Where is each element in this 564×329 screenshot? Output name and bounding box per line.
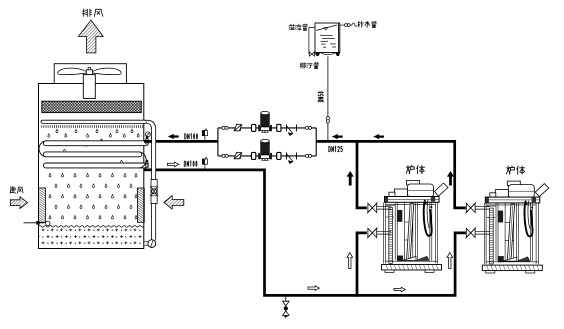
furnace U2 (炉体 right) (482, 181, 549, 273)
arrow up furnace1 cold riser (347, 253, 353, 269)
gauge on supply line (202, 157, 207, 168)
coil outlet flange (146, 160, 148, 168)
label 炉体 (furnace2) (507, 166, 515, 174)
label 补水管 (358, 21, 364, 27)
label 炉体 (furnace1) (406, 165, 414, 173)
coil U-bend left (39, 141, 46, 157)
furnace1 cold inlet pipe (377, 232, 391, 234)
right louver (hatched) (137, 188, 144, 222)
label 进风 (10, 187, 16, 194)
tank water level (316, 25, 337, 30)
furnace U1 (炉体 left) (382, 181, 449, 273)
arrow supply near tower (167, 162, 178, 167)
valve on spray riser (150, 180, 159, 204)
pump branch 1 (P1) (222, 111, 312, 136)
arrow up furnace1 hot riser (347, 171, 354, 186)
fan motor (83, 75, 95, 99)
air inlet arrow left (10, 197, 27, 209)
pump branch 2 (P2) (222, 139, 312, 164)
furnace1 hot inlet pipe (377, 207, 391, 209)
pump loop frame (218, 128, 316, 156)
tank bottom (316, 53, 340, 57)
spray riser pipe (tower right side) (147, 120, 156, 240)
furnace2 cold inlet pipe (475, 232, 489, 234)
coil tube 2 (43, 152, 141, 157)
spray nozzles row (42, 125, 143, 128)
tank water shading (320, 35, 336, 47)
droplets below coil (49, 174, 137, 219)
furnace1 hot valve (367, 203, 377, 214)
label DN50 (vertical) (318, 92, 323, 102)
furnace1 hot riser (357, 140, 367, 208)
basin water line (39, 226, 145, 228)
overflow pipe (309, 28, 317, 54)
overflow/drain valve (309, 52, 314, 56)
arrow up furnace2 cold riser (447, 253, 453, 269)
label DN125 (329, 146, 331, 151)
fan blades (58, 68, 121, 75)
drift eliminator (crosshatch band) (42, 101, 142, 112)
drain valve assembly (283, 297, 290, 319)
furnace2 hot inlet pipe (475, 207, 489, 209)
tank outlet pipe DN50 (327, 56, 329, 140)
return header DN125 to furnace risers (316, 141, 466, 208)
air inlet arrow right (164, 196, 184, 210)
arrow on header mid (373, 134, 384, 139)
fan hub (86, 68, 92, 75)
coil inlet flange (146, 137, 148, 145)
supply pipe DN100 + headers (144, 170, 466, 296)
float valve (24, 221, 51, 226)
cooling tower body (39, 84, 144, 249)
furnace2 cold valve (466, 228, 476, 239)
arrow bottom header 2 (394, 287, 405, 292)
gauge on return line (202, 129, 207, 140)
label 排污管 (300, 63, 306, 68)
furnace2 hot valve (466, 203, 476, 214)
arrow on header after tank tee (332, 134, 343, 139)
label 排风 (82, 9, 91, 16)
label DN100 (return) (185, 134, 186, 139)
left louver (hatched) (39, 188, 46, 222)
spray header (41, 120, 147, 123)
spray pump (bottom of riser) (144, 240, 156, 248)
tank body (315, 23, 340, 53)
arrow bottom header 1 (308, 286, 319, 291)
small caret marks (63, 139, 123, 162)
return pipe DN100 (furnaces->tower) (144, 140, 218, 143)
arrow return near tower (168, 134, 179, 139)
furnace1 cold valve (367, 228, 377, 239)
coil tube 1 (43, 141, 148, 146)
label DN100 (supply) (184, 161, 185, 166)
fan housing (54, 64, 126, 84)
coil tube 3 (43, 163, 148, 168)
makeup pipe + valve + hook (340, 23, 357, 27)
furnace1 cold riser (357, 233, 367, 297)
valve on DN50 pipe (326, 117, 329, 123)
coil U-bend right (139, 152, 146, 168)
droplets above coil (48, 129, 139, 137)
air vent circle (146, 132, 151, 137)
basin fill (speckle) (40, 229, 143, 248)
exhaust arrow (hatched) (78, 20, 103, 53)
label 溢流管 (289, 24, 295, 30)
arrow up furnace2 hot riser (447, 171, 454, 186)
